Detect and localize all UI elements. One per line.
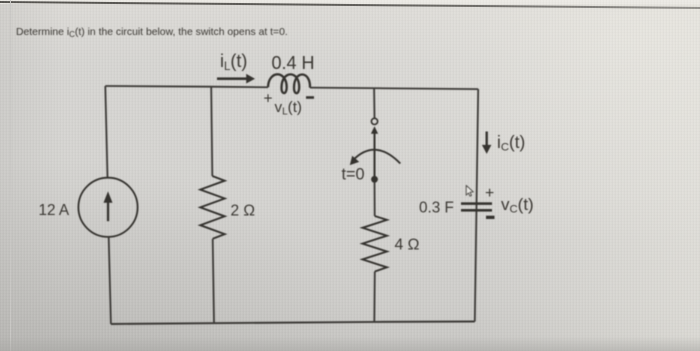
- wire: 2-ohm branch upper: [211, 87, 212, 176]
- svg-text:vC(t): vC(t): [501, 195, 534, 216]
- mouse cursor: [466, 185, 473, 196]
- arrow for iC current direction: [482, 132, 492, 154]
- wire: left branch lower: [109, 237, 111, 324]
- resistor R1 2 ohm: [200, 176, 224, 239]
- svg-text:t=0: t=0: [342, 166, 365, 184]
- switch opening direction arc arrow: [350, 150, 401, 165]
- faint left edge line: [10, 0, 11, 351]
- svg-text:Determine iC(t) in the circuit: Determine iC(t) in the circuit below, th…: [16, 27, 288, 39]
- svg-text:4 Ω: 4 Ω: [395, 237, 420, 254]
- wire: switch branch upper: [373, 89, 375, 119]
- label - for vL: [306, 96, 314, 99]
- wire: 2-ohm branch lower: [213, 239, 214, 323]
- svg-text:iL(t): iL(t): [220, 51, 247, 73]
- capacitor C1 0.3 F: [461, 202, 492, 211]
- screen top edge line: [0, 1, 700, 9]
- svg-text:12 A: 12 A: [39, 202, 70, 219]
- label - for vC: [486, 216, 495, 219]
- wire: bottom rail: [111, 322, 475, 325]
- wire: left branch upper: [105, 86, 107, 178]
- svg-text:+: +: [264, 90, 273, 107]
- svg-text:0.3 F: 0.3 F: [419, 199, 454, 216]
- wire: switch to 4-ohm resistor: [374, 182, 376, 216]
- svg-text:+: +: [485, 185, 494, 202]
- wire: top rail right segment: [310, 88, 478, 90]
- resistor R2 4 ohm: [363, 216, 387, 272]
- svg-text:iC(t): iC(t): [497, 132, 525, 154]
- arrow for iL current direction: [217, 74, 255, 84]
- svg-text:2 Ω: 2 Ω: [231, 203, 256, 220]
- wire: top rail left segment: [105, 86, 268, 87]
- wire: 4-ohm branch lower: [373, 272, 376, 322]
- wire: right branch (capacitor): [475, 89, 478, 321]
- inductor L1 0.4 H: [268, 74, 310, 93]
- svg-text:vL(t): vL(t): [275, 99, 303, 118]
- switch S1 (opens at t=0): [371, 118, 378, 182]
- svg-text:0.4 H: 0.4 H: [272, 53, 315, 73]
- current source I1 12 A: [78, 178, 137, 237]
